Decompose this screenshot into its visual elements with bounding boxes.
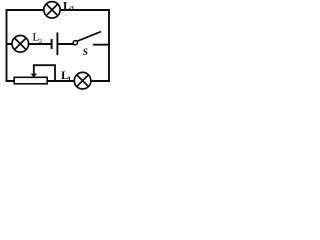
svg-text:S: S [83, 48, 88, 58]
svg-text:2: 2 [39, 38, 42, 45]
lamp L3 [44, 2, 60, 18]
switch S pivot [73, 41, 77, 45]
rheostat slider arrow [31, 74, 37, 78]
wire right rail [108, 10, 110, 81]
wire middle branch battery-to-switch [58, 43, 74, 45]
battery positive plate [56, 33, 58, 56]
battery negative plate [51, 39, 53, 49]
wire bottom rail [7, 80, 110, 82]
lamp L1 [74, 72, 91, 89]
wire switch contact stub [94, 44, 109, 46]
wire middle branch left [7, 43, 51, 45]
rheostat slider tap wire [34, 65, 55, 81]
svg-text:1: 1 [68, 75, 71, 82]
wire top rail [7, 9, 110, 11]
lamp L2 [12, 36, 29, 53]
rheostat body [14, 77, 47, 84]
wire left rail [6, 10, 8, 81]
switch S blade [78, 32, 102, 41]
